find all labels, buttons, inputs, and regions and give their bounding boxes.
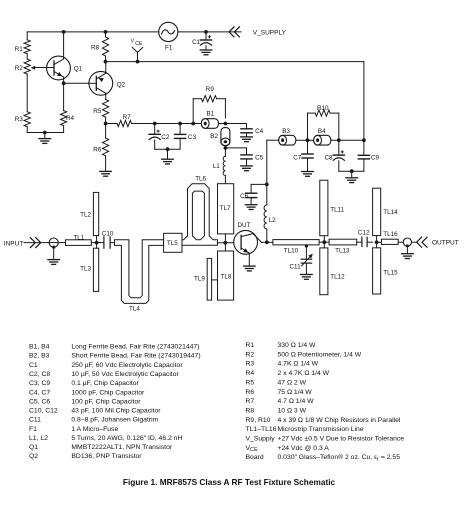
svg-text:R8: R8	[246, 407, 255, 414]
svg-text:C2: C2	[161, 134, 170, 141]
svg-text:R6: R6	[246, 389, 255, 396]
svg-text:F1: F1	[165, 45, 173, 52]
svg-text:C2, C8: C2, C8	[29, 371, 50, 378]
svg-text:R3: R3	[246, 361, 255, 368]
svg-text:C12: C12	[358, 229, 370, 236]
svg-text:TL15: TL15	[383, 270, 398, 277]
svg-text:Q1: Q1	[74, 66, 83, 73]
svg-text:TL6: TL6	[195, 175, 206, 182]
svg-text:V_Supply: V_Supply	[246, 436, 276, 443]
svg-text:C8: C8	[325, 155, 334, 162]
svg-text:Figure 1. MRF857S Class A RF T: Figure 1. MRF857S Class A RF Test Fixtur…	[123, 477, 336, 487]
svg-text:R2: R2	[246, 351, 255, 358]
svg-text:F1: F1	[29, 426, 37, 433]
svg-text:Q1: Q1	[29, 444, 38, 451]
svg-text:+27 Vdc ±0.5 V Due to Resistor: +27 Vdc ±0.5 V Due to Resistor Tolerance	[278, 436, 405, 443]
svg-text:C4, C7: C4, C7	[29, 389, 50, 396]
svg-text:B3: B3	[282, 128, 290, 135]
svg-text:10 Ω 3 W: 10 Ω 3 W	[278, 407, 307, 414]
svg-text:Short Ferrite Bead, Fair Rite: Short Ferrite Bead, Fair Rite (274301944…	[71, 353, 200, 360]
svg-text:L1, L2: L1, L2	[29, 435, 48, 442]
svg-text:DUT: DUT	[238, 222, 251, 229]
svg-text:OUTPUT: OUTPUT	[432, 240, 459, 247]
svg-text:R9: R9	[206, 86, 215, 93]
svg-text:CE: CE	[135, 41, 143, 47]
svg-text:C5: C5	[255, 155, 264, 162]
svg-text:47 Ω 2 W: 47 Ω 2 W	[278, 379, 307, 386]
svg-text:B1, B4: B1, B4	[29, 344, 50, 351]
svg-text:1000 pF, Chip Capacitor: 1000 pF, Chip Capacitor	[71, 389, 145, 396]
svg-text:C9: C9	[371, 155, 380, 162]
svg-text:TL9: TL9	[194, 276, 205, 283]
svg-text:250 µF, 60 Vdc Electrolytic Ca: 250 µF, 60 Vdc Electrolytic Capacitor	[71, 362, 183, 369]
svg-text:R2: R2	[15, 65, 24, 72]
svg-text:5 Turns, 20 AWG, 0.126″ ID, 46: 5 Turns, 20 AWG, 0.126″ ID, 46.2 nH	[71, 435, 182, 442]
svg-text:C10: C10	[102, 230, 114, 237]
svg-text:R7: R7	[123, 114, 132, 121]
svg-text:0.8–8 pF, Johansen Gigatrim: 0.8–8 pF, Johansen Gigatrim	[71, 417, 158, 424]
svg-text:R4: R4	[246, 370, 255, 377]
svg-text:+24 Vdc @ 0.3 A: +24 Vdc @ 0.3 A	[278, 445, 330, 452]
svg-text:Long Ferrite Bead, Fair Rite (: Long Ferrite Bead, Fair Rite (2743021447…	[71, 344, 199, 351]
svg-text:C7: C7	[293, 155, 302, 162]
svg-text:2 x 4.7K Ω 1/4 W: 2 x 4.7K Ω 1/4 W	[278, 370, 330, 377]
svg-text:43 pF, 100 Mil Chip Capacitor: 43 pF, 100 Mil Chip Capacitor	[71, 408, 161, 415]
svg-text:0.1 µF, Chip Capacitor: 0.1 µF, Chip Capacitor	[71, 380, 139, 387]
svg-text:Microstrip Transmission Line: Microstrip Transmission Line	[278, 426, 364, 433]
svg-text:C4: C4	[255, 128, 264, 135]
svg-text:B2: B2	[210, 133, 218, 140]
svg-text:TL4: TL4	[129, 306, 140, 313]
svg-text:TL10: TL10	[284, 248, 299, 255]
svg-text:VCE: VCE	[246, 445, 259, 453]
svg-text:C1: C1	[192, 39, 201, 46]
svg-text:L2: L2	[269, 217, 277, 224]
svg-text:10 µF, 50 Vdc Electrolytic Cap: 10 µF, 50 Vdc Electrolytic Capacitor	[71, 371, 179, 378]
svg-text:V: V	[131, 39, 135, 45]
svg-text:INPUT: INPUT	[4, 240, 24, 247]
svg-text:C11: C11	[290, 263, 302, 270]
svg-text:R9, R10: R9, R10	[246, 417, 271, 424]
svg-text:TL1: TL1	[73, 234, 84, 241]
svg-text:R7: R7	[246, 398, 255, 405]
svg-text:TL5: TL5	[167, 240, 178, 247]
svg-text:C11: C11	[29, 417, 41, 424]
svg-text:TL7: TL7	[220, 205, 231, 212]
svg-text:R1: R1	[15, 46, 24, 53]
svg-text:C3: C3	[188, 134, 197, 141]
svg-text:330 Ω 1/4 W: 330 Ω 1/4 W	[278, 342, 317, 349]
svg-text:TL12: TL12	[330, 273, 345, 280]
svg-text:B4: B4	[318, 128, 326, 135]
svg-text:TL14: TL14	[383, 209, 398, 216]
svg-text:TL11: TL11	[330, 207, 344, 214]
svg-text:TL1–TL16: TL1–TL16	[246, 426, 277, 433]
svg-text:4 x 39 Ω 1/8 W Chip Resistors: 4 x 39 Ω 1/8 W Chip Resistors in Paralle…	[278, 417, 401, 424]
svg-text:500 Ω Potentiometer, 1/4 W: 500 Ω Potentiometer, 1/4 W	[278, 351, 362, 358]
svg-text:C10, C12: C10, C12	[29, 408, 58, 415]
svg-text:BD136, PNP Transistor: BD136, PNP Transistor	[71, 453, 142, 460]
svg-text:MMBT2222ALT1, NPN Transistor: MMBT2222ALT1, NPN Transistor	[71, 444, 172, 451]
svg-text:R10: R10	[317, 105, 329, 112]
svg-text:TL8: TL8	[221, 274, 232, 281]
svg-text:100 pF, Chip Capacitor: 100 pF, Chip Capacitor	[71, 398, 141, 405]
svg-text:TL3: TL3	[80, 266, 91, 273]
svg-text:TL13: TL13	[335, 248, 350, 255]
svg-text:R4: R4	[66, 115, 75, 122]
svg-text:C1: C1	[29, 362, 38, 369]
svg-text:Q2: Q2	[29, 453, 38, 460]
svg-text:R3: R3	[15, 116, 24, 123]
svg-text:B1: B1	[207, 110, 215, 117]
svg-text:C3, C9: C3, C9	[29, 380, 50, 387]
svg-text:0.030″ Glass–Teflon® 2 oz. Cu,: 0.030″ Glass–Teflon® 2 oz. Cu, εr = 2.55	[278, 453, 401, 462]
svg-text:4.7K Ω 1/4 W: 4.7K Ω 1/4 W	[278, 361, 319, 368]
svg-text:R5: R5	[93, 108, 102, 115]
svg-text:Board: Board	[246, 454, 264, 461]
svg-text:1 A Micro–Fuse: 1 A Micro–Fuse	[71, 426, 118, 433]
svg-text:V_SUPPLY: V_SUPPLY	[253, 30, 287, 37]
svg-text:Q2: Q2	[117, 82, 126, 89]
svg-text:TL2: TL2	[80, 212, 91, 219]
svg-text:C6: C6	[240, 193, 249, 200]
svg-text:TL16: TL16	[383, 231, 398, 238]
svg-text:R5: R5	[246, 379, 255, 386]
svg-text:B2, B3: B2, B3	[29, 353, 50, 360]
svg-text:75 Ω 1/4 W: 75 Ω 1/4 W	[278, 389, 313, 396]
svg-text:R8: R8	[91, 44, 100, 51]
svg-text:C5, C6: C5, C6	[29, 398, 50, 405]
svg-text:R1: R1	[246, 342, 255, 349]
svg-text:R6: R6	[93, 146, 102, 153]
svg-text:L1: L1	[213, 163, 221, 170]
svg-text:4.7 Ω 1/4 W: 4.7 Ω 1/4 W	[278, 398, 315, 405]
